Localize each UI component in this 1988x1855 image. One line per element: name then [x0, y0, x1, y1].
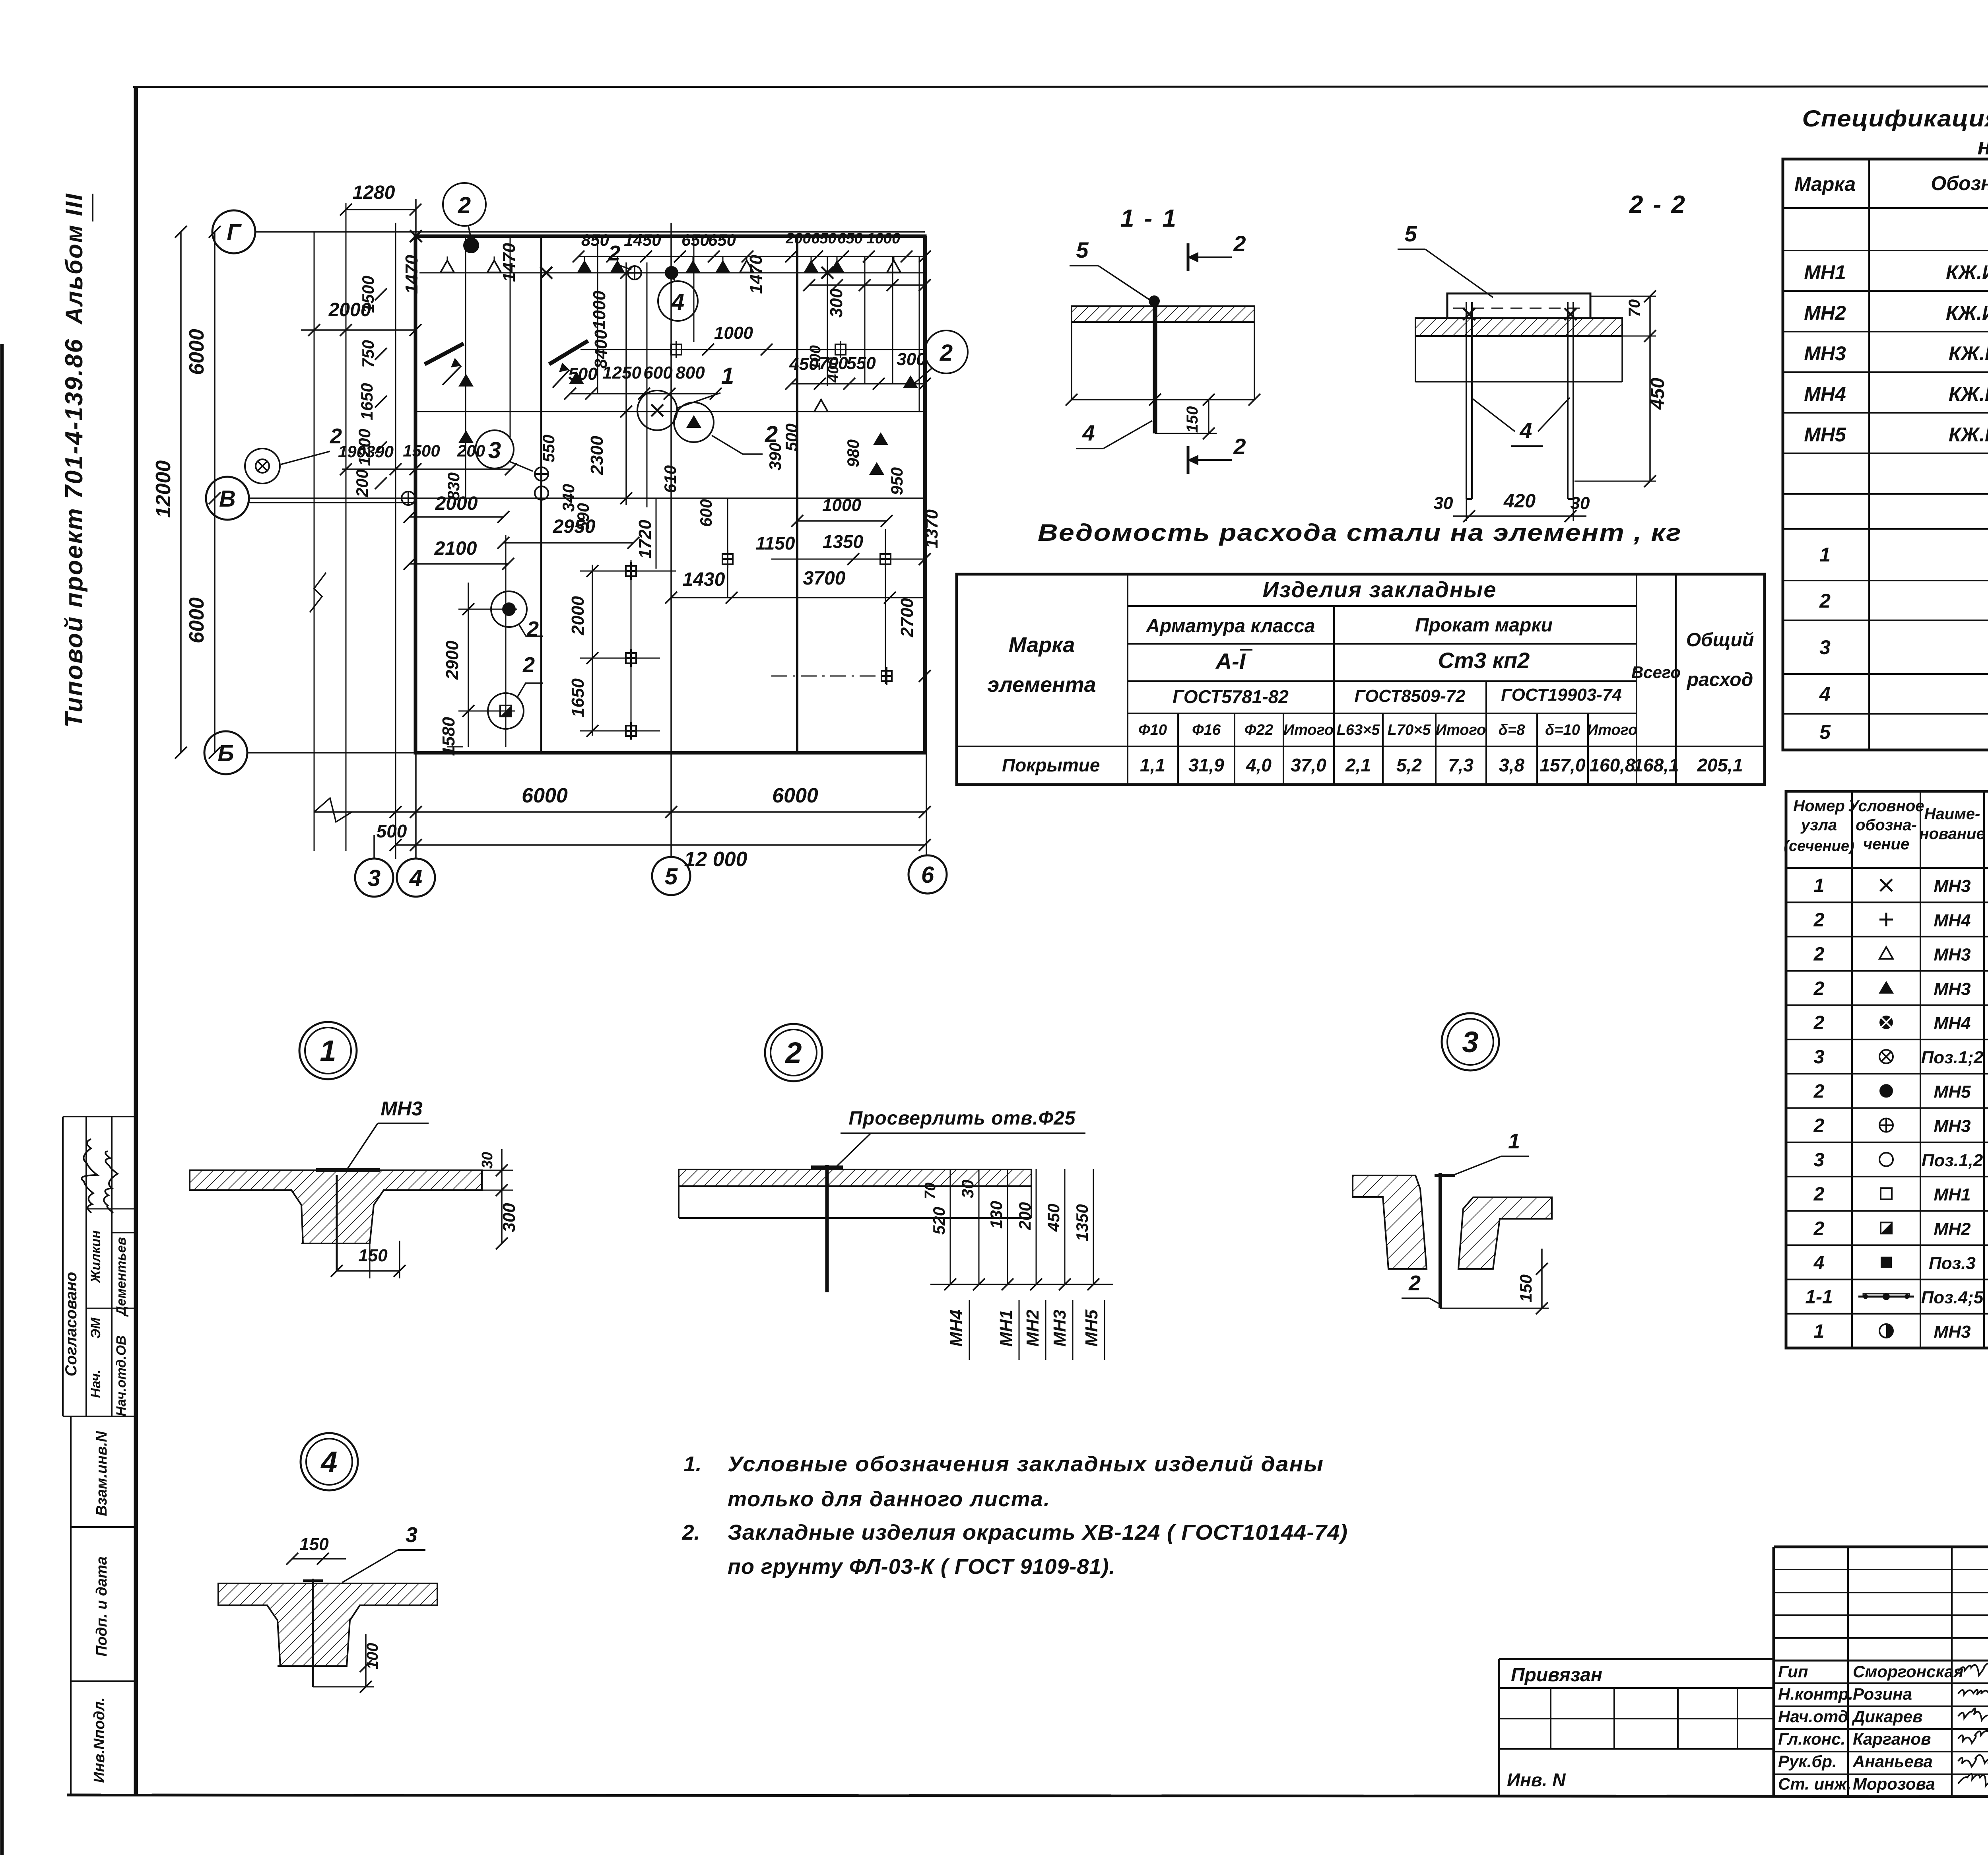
svg-text:1: 1	[1508, 1129, 1520, 1153]
svg-text:1000: 1000	[714, 323, 753, 343]
svg-text:Арматура класса: Арматура класса	[1145, 616, 1315, 637]
svg-text:1: 1	[1819, 544, 1831, 566]
svg-text:3: 3	[1819, 636, 1831, 658]
svg-text:Карганов: Карганов	[1853, 1730, 1931, 1748]
svg-text:70: 70	[922, 1183, 939, 1199]
svg-text:12 000: 12 000	[684, 848, 747, 871]
svg-text:2100: 2100	[434, 538, 477, 559]
svg-text:3700: 3700	[803, 568, 846, 589]
svg-text:Изделия закладные: Изделия закладные	[1262, 577, 1497, 602]
svg-text:150: 150	[358, 1246, 388, 1265]
svg-text:200: 200	[353, 469, 371, 497]
svg-text:2: 2	[1813, 1012, 1825, 1033]
svg-text:3,8: 3,8	[1499, 755, 1524, 775]
svg-text:1450: 1450	[624, 231, 661, 249]
svg-text:Ведомость расхода стали на: Ведомость расхода стали на элемент , кг	[1038, 519, 1682, 546]
svg-text:МН3: МН3	[1934, 876, 1971, 896]
svg-text:МН5: МН5	[1082, 1309, 1101, 1346]
svg-text:А-I: А-I	[1215, 649, 1246, 674]
svg-text:520: 520	[930, 1207, 948, 1235]
svg-text:МН3: МН3	[1804, 342, 1846, 365]
svg-text:5: 5	[1819, 721, 1831, 743]
svg-text:1650: 1650	[357, 383, 376, 420]
svg-text:Общий: Общий	[1686, 629, 1754, 651]
svg-text:5: 5	[1404, 221, 1417, 246]
svg-text:2: 2	[1813, 1081, 1825, 1102]
svg-text:МН2: МН2	[1804, 302, 1846, 324]
svg-text:ГОСТ5781-82: ГОСТ5781-82	[1173, 686, 1289, 707]
svg-text:Г: Г	[227, 219, 242, 245]
svg-text:МН5: МН5	[1804, 423, 1846, 446]
svg-text:Розина: Розина	[1853, 1685, 1912, 1703]
svg-text:500: 500	[377, 821, 407, 841]
svg-text:150: 150	[1184, 406, 1201, 433]
svg-text:450: 450	[1044, 1204, 1063, 1232]
svg-text:1280: 1280	[353, 182, 395, 203]
svg-text:1720: 1720	[635, 520, 655, 559]
svg-text:3: 3	[488, 437, 501, 463]
svg-text:В: В	[219, 486, 236, 512]
svg-text:Гл.конс.: Гл.конс.	[1778, 1730, 1845, 1748]
svg-text:3: 3	[368, 865, 381, 891]
svg-text:30: 30	[958, 1180, 977, 1198]
svg-text:2: 2	[526, 617, 539, 641]
svg-text:600: 600	[697, 499, 715, 527]
svg-text:610: 610	[661, 465, 679, 493]
svg-text:6000: 6000	[185, 329, 208, 375]
svg-text:2 - 2: 2 - 2	[1629, 191, 1687, 218]
svg-text:70: 70	[1626, 299, 1643, 317]
svg-text:МН1: МН1	[996, 1310, 1016, 1347]
svg-text:Н.контр.: Н.контр.	[1778, 1685, 1853, 1703]
svg-text:1470: 1470	[402, 255, 421, 294]
svg-text:37,0: 37,0	[1291, 755, 1326, 775]
svg-text:Всего: Всего	[1631, 663, 1681, 682]
svg-text:Нач.: Нач.	[88, 1369, 103, 1398]
svg-text:КЖ.И.0.50: КЖ.И.0.50	[1949, 342, 1988, 365]
svg-text:МН4: МН4	[1934, 911, 1971, 930]
svg-text:100: 100	[364, 1643, 381, 1670]
svg-text:4: 4	[1813, 1252, 1825, 1273]
svg-text:Подп. и дата: Подп. и дата	[93, 1556, 110, 1657]
svg-text:2: 2	[1408, 1271, 1421, 1295]
svg-text:Альбом III: Альбом III	[61, 192, 87, 325]
svg-text:Рук.бр.: Рук.бр.	[1778, 1752, 1837, 1771]
svg-text:МН3: МН3	[1934, 1117, 1971, 1136]
svg-text:2: 2	[608, 241, 620, 265]
svg-text:4: 4	[1082, 420, 1095, 445]
svg-text:Номер: Номер	[1793, 797, 1845, 815]
svg-text:6000: 6000	[772, 784, 818, 807]
svg-text:7,3: 7,3	[1448, 755, 1474, 775]
svg-text:1150: 1150	[756, 533, 795, 554]
svg-text:12000: 12000	[152, 460, 175, 518]
svg-text:2300: 2300	[587, 436, 607, 475]
svg-text:8400: 8400	[591, 330, 611, 369]
svg-text:2: 2	[940, 340, 953, 366]
svg-text:Гип: Гип	[1778, 1662, 1808, 1681]
svg-text:Инв. N: Инв. N	[1507, 1770, 1566, 1790]
svg-text:Итого: Итого	[1436, 722, 1486, 738]
svg-text:расход: расход	[1686, 669, 1753, 690]
svg-text:2.: 2.	[681, 1521, 700, 1544]
svg-text:2: 2	[1813, 1184, 1825, 1205]
svg-text:Поз.4;5: Поз.4;5	[1921, 1288, 1984, 1307]
svg-text:Обозначение: Обозначение	[1931, 172, 1988, 194]
svg-text:КЖ.И.0.50: КЖ.И.0.50	[1949, 383, 1988, 405]
svg-text:Взам.инв.N: Взам.инв.N	[93, 1431, 110, 1516]
svg-text:обозна-: обозна-	[1856, 816, 1917, 834]
svg-text:Ананьева: Ананьева	[1852, 1752, 1933, 1771]
svg-text:1470: 1470	[499, 243, 519, 282]
svg-text:Привязан: Привязан	[1511, 1665, 1602, 1686]
svg-text:КЖ.И.0.50.: КЖ.И.0.50.	[1946, 302, 1988, 324]
svg-text:КЖ.И.0.50.: КЖ.И.0.50.	[1946, 261, 1988, 284]
svg-text:3: 3	[1814, 1047, 1825, 1068]
svg-text:Покрытие: Покрытие	[1002, 755, 1100, 775]
svg-text:ЭМ: ЭМ	[88, 1317, 103, 1338]
svg-text:100: 100	[807, 345, 824, 370]
svg-text:200: 200	[1015, 1202, 1034, 1230]
svg-text:420: 420	[1503, 491, 1536, 512]
svg-text:4: 4	[1819, 683, 1831, 705]
svg-text:МН4: МН4	[947, 1310, 966, 1347]
svg-text:31,9: 31,9	[1188, 755, 1224, 775]
svg-text:Просверлить отв.Ф25: Просверлить отв.Ф25	[849, 1108, 1076, 1129]
svg-text:Ст3 кп2: Ст3 кп2	[1438, 648, 1530, 673]
svg-text:КЖ.И.0.50: КЖ.И.0.50	[1949, 423, 1988, 446]
svg-text:3: 3	[1814, 1150, 1825, 1171]
svg-text:Условные обозначения закла: Условные обозначения закладных изделий д…	[728, 1452, 1324, 1476]
svg-text:5: 5	[1076, 237, 1089, 262]
svg-text:L63×5: L63×5	[1337, 722, 1380, 738]
svg-text:МН4: МН4	[1934, 1014, 1971, 1033]
svg-text:1: 1	[1814, 1321, 1825, 1342]
svg-text:30: 30	[479, 1152, 496, 1169]
svg-text:4: 4	[409, 865, 422, 891]
svg-text:2900: 2900	[443, 641, 462, 680]
svg-text:980: 980	[844, 439, 862, 467]
svg-text:МН3: МН3	[1934, 1322, 1971, 1342]
svg-text:2: 2	[1813, 944, 1825, 965]
svg-text:130: 130	[987, 1201, 1006, 1229]
svg-text:550: 550	[846, 354, 876, 373]
svg-text:30: 30	[1571, 493, 1590, 513]
svg-text:МН4: МН4	[1804, 383, 1846, 405]
svg-text:Жилкин: Жилкин	[88, 1230, 103, 1284]
svg-text:2: 2	[522, 653, 535, 677]
svg-text:МН5: МН5	[1934, 1082, 1971, 1101]
svg-text:МН3: МН3	[381, 1097, 423, 1120]
svg-text:300: 300	[827, 288, 846, 318]
svg-text:2700: 2700	[897, 598, 917, 637]
svg-text:Спецификация элементов к: Спецификация элементов к схеме, располож…	[1802, 106, 1988, 132]
svg-text:нование: нование	[1919, 825, 1985, 843]
svg-text:1580: 1580	[439, 717, 458, 756]
svg-text:2: 2	[784, 1036, 802, 1069]
svg-text:1: 1	[1814, 875, 1825, 896]
svg-text:168,1: 168,1	[1633, 755, 1679, 775]
svg-text:1350: 1350	[823, 531, 864, 552]
svg-text:390: 390	[766, 443, 784, 470]
svg-text:L70×5: L70×5	[1388, 722, 1431, 738]
svg-text:1.: 1.	[683, 1452, 701, 1476]
svg-text:Итого: Итого	[1283, 722, 1334, 738]
svg-text:4: 4	[671, 289, 684, 315]
svg-text:2: 2	[1233, 434, 1246, 459]
svg-text:2: 2	[1813, 1115, 1825, 1136]
svg-text:390: 390	[366, 442, 394, 461]
svg-text:1000: 1000	[822, 495, 861, 515]
svg-text:200: 200	[457, 441, 485, 460]
svg-text:Условное: Условное	[1848, 797, 1924, 815]
svg-text:на данном листе: на данном листе	[1978, 134, 1988, 159]
svg-text:Ст. инж.: Ст. инж.	[1778, 1775, 1851, 1793]
svg-text:2: 2	[330, 424, 342, 448]
svg-text:МН2: МН2	[1934, 1219, 1971, 1239]
svg-text:2950: 2950	[553, 516, 596, 537]
svg-text:6000: 6000	[522, 784, 568, 807]
svg-text:ГОСТ19903-74: ГОСТ19903-74	[1501, 685, 1622, 705]
svg-text:(сечение): (сечение)	[1784, 838, 1854, 855]
svg-text:только для данного листа: только для данного листа.	[728, 1487, 1050, 1511]
svg-text:2000: 2000	[328, 299, 371, 320]
svg-text:1,1: 1,1	[1140, 755, 1165, 775]
svg-text:1500: 1500	[403, 441, 440, 460]
svg-text:400: 400	[825, 357, 842, 383]
svg-text:450: 450	[1647, 378, 1668, 410]
svg-text:Закладные изделия окрасить: Закладные изделия окрасить ХВ-124 ( ГОСТ…	[728, 1521, 1348, 1544]
svg-text:МН3: МН3	[1934, 945, 1971, 965]
svg-text:4: 4	[1519, 418, 1532, 443]
svg-text:2,1: 2,1	[1345, 755, 1371, 775]
svg-text:Марка: Марка	[1794, 173, 1856, 195]
svg-text:1000: 1000	[590, 291, 609, 330]
svg-text:6000: 6000	[185, 597, 208, 643]
svg-text:Согласовано: Согласовано	[62, 1272, 80, 1377]
svg-text:МН3: МН3	[1050, 1310, 1070, 1347]
svg-text:МН2: МН2	[1023, 1309, 1043, 1346]
svg-text:Типовой проект 701-4-139.86: Типовой проект 701-4-139.86	[60, 338, 88, 728]
svg-text:узла: узла	[1800, 816, 1837, 834]
svg-text:1430: 1430	[683, 569, 725, 590]
svg-text:4: 4	[320, 1445, 337, 1478]
svg-text:2: 2	[1813, 978, 1825, 999]
svg-text:3: 3	[1462, 1026, 1478, 1059]
svg-text:Ф22: Ф22	[1244, 722, 1273, 738]
svg-text:2000: 2000	[568, 596, 588, 635]
svg-text:Сморгонская: Сморгонская	[1853, 1662, 1963, 1681]
svg-text:205,1: 205,1	[1697, 755, 1743, 775]
svg-text:1: 1	[320, 1034, 336, 1067]
svg-text:δ=10: δ=10	[1545, 722, 1580, 738]
svg-text:6: 6	[921, 862, 934, 888]
svg-text:Ф16: Ф16	[1192, 722, 1221, 738]
svg-text:МН1: МН1	[1804, 261, 1846, 284]
svg-text:800: 800	[676, 363, 705, 383]
svg-text:Поз.1,2: Поз.1,2	[1922, 1151, 1983, 1170]
svg-text:150: 150	[299, 1535, 329, 1554]
svg-text:2: 2	[1233, 231, 1246, 256]
svg-text:Поз.1;2: Поз.1;2	[1921, 1048, 1984, 1067]
svg-text:1370: 1370	[922, 509, 942, 548]
svg-text:1 - 1: 1 - 1	[1120, 205, 1178, 232]
svg-text:500: 500	[782, 423, 801, 451]
svg-text:2: 2	[1819, 590, 1831, 612]
svg-text:ГОСТ8509-72: ГОСТ8509-72	[1354, 686, 1466, 706]
svg-text:2: 2	[1813, 1218, 1825, 1239]
svg-text:300: 300	[499, 1203, 519, 1232]
svg-text:2: 2	[1813, 909, 1825, 930]
svg-text:600: 600	[643, 363, 673, 383]
svg-text:Наиме-: Наиме-	[1924, 805, 1980, 823]
svg-text:4,0: 4,0	[1246, 755, 1272, 775]
svg-text:элемента: элемента	[987, 673, 1096, 697]
svg-text:200: 200	[785, 230, 811, 247]
svg-text:Нач.отд.ОВ: Нач.отд.ОВ	[114, 1335, 129, 1416]
svg-text:Итого: Итого	[1587, 722, 1637, 738]
svg-text:МН3: МН3	[1934, 979, 1971, 999]
svg-text:5: 5	[665, 864, 678, 890]
svg-text:Дементьев: Дементьев	[114, 1237, 129, 1317]
svg-text:750: 750	[359, 340, 377, 368]
svg-text:3: 3	[406, 1523, 417, 1547]
svg-text:2: 2	[458, 192, 471, 218]
svg-text:чение: чение	[1863, 835, 1909, 853]
svg-text:Поз.3: Поз.3	[1929, 1253, 1976, 1273]
svg-text:950: 950	[887, 467, 906, 495]
svg-text:190: 190	[338, 442, 366, 461]
svg-text:850: 850	[581, 231, 609, 249]
svg-text:650: 650	[708, 231, 736, 249]
svg-text:650: 650	[681, 231, 709, 249]
svg-text:30: 30	[1434, 493, 1453, 513]
svg-text:Прокат марки: Прокат марки	[1415, 615, 1553, 636]
svg-text:2000: 2000	[435, 493, 478, 514]
svg-text:650: 650	[837, 230, 862, 247]
svg-text:157,0: 157,0	[1540, 755, 1586, 775]
svg-text:Нач.отд: Нач.отд	[1778, 1707, 1848, 1726]
svg-text:1470: 1470	[746, 255, 766, 294]
svg-text:550: 550	[539, 435, 558, 462]
svg-text:1650: 1650	[568, 678, 588, 717]
svg-text:Морозова: Морозова	[1853, 1775, 1935, 1793]
svg-text:Ф10: Ф10	[1138, 722, 1167, 738]
svg-text:Дикарев: Дикарев	[1852, 1707, 1923, 1726]
svg-text:300: 300	[897, 350, 926, 369]
svg-text:650: 650	[811, 230, 836, 247]
svg-text:150: 150	[1516, 1274, 1535, 1302]
svg-text:5,2: 5,2	[1396, 755, 1422, 775]
svg-text:по грунту ФЛ-03-К ( ГОСТ: по грунту ФЛ-03-К ( ГОСТ 9109-81).	[728, 1555, 1115, 1579]
svg-text:Марка: Марка	[1009, 633, 1075, 657]
svg-text:1: 1	[721, 363, 734, 389]
svg-text:1350: 1350	[1073, 1204, 1091, 1241]
svg-text:1-1: 1-1	[1805, 1287, 1833, 1308]
svg-text:δ=8: δ=8	[1499, 722, 1525, 738]
svg-text:Б: Б	[217, 740, 234, 766]
svg-text:160,8: 160,8	[1589, 755, 1635, 775]
svg-text:1000: 1000	[867, 230, 901, 247]
svg-text:Инв.Nподл.: Инв.Nподл.	[91, 1697, 108, 1783]
svg-text:МН1: МН1	[1934, 1185, 1971, 1204]
